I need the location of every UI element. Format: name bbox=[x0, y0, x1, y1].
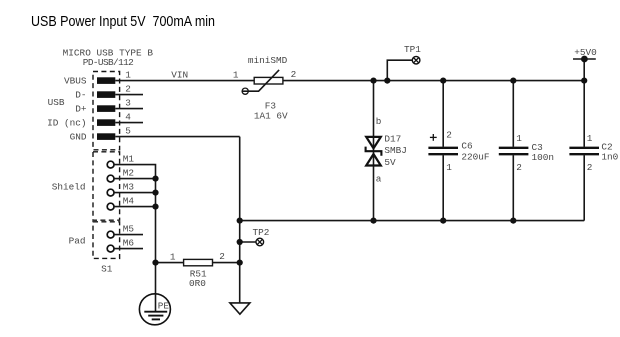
svg-text:Shield: Shield bbox=[52, 182, 86, 193]
junction C3 top bbox=[510, 78, 516, 84]
test point TP1 stub wire bbox=[387, 60, 412, 80]
svg-text:2: 2 bbox=[219, 251, 225, 262]
wire M3 stub bbox=[114, 192, 155, 194]
junction R51 pin2 bbox=[237, 260, 243, 266]
svg-text:1: 1 bbox=[446, 162, 452, 173]
svg-text:USB Power Input 5V 700mA min: USB Power Input 5V 700mA min bbox=[31, 14, 215, 30]
wire D17 column bbox=[373, 81, 375, 221]
junction C6 bottom bbox=[440, 218, 446, 224]
junction TP1 on rail bbox=[384, 78, 390, 84]
svg-text:2: 2 bbox=[516, 162, 522, 173]
svg-text:VBUS: VBUS bbox=[64, 76, 87, 87]
wire M4 stub bbox=[114, 206, 155, 208]
test point TP2 symbol bbox=[256, 238, 264, 246]
earth PE symbol circle bbox=[139, 294, 170, 325]
svg-text:ID (nc): ID (nc) bbox=[47, 118, 86, 129]
svg-text:miniSMD: miniSMD bbox=[248, 55, 288, 66]
capacitor C2 plates bbox=[569, 148, 599, 154]
svg-text:USB: USB bbox=[48, 97, 65, 108]
capacitor C2 bottom wire bbox=[583, 155, 585, 220]
wire pin2 stub bbox=[115, 94, 143, 96]
junction TP2 bbox=[237, 239, 243, 245]
wire M6 stub bbox=[114, 248, 143, 250]
svg-text:S1: S1 bbox=[101, 264, 113, 275]
wire VIN (pin1 to fuse) bbox=[115, 80, 254, 82]
wire +5V rail (fuse to +5V0) bbox=[283, 80, 584, 82]
junction C2 top rail bbox=[581, 78, 587, 84]
svg-text:1: 1 bbox=[170, 252, 176, 263]
pin 1 VBUS pad bbox=[97, 77, 115, 84]
svg-text:M3: M3 bbox=[123, 181, 135, 192]
connector S1 box pad M5-M6 (dashed) bbox=[93, 222, 120, 259]
pin M3 circle bbox=[107, 189, 114, 196]
svg-text:3: 3 bbox=[125, 97, 131, 108]
capacitor C3 bottom wire bbox=[512, 155, 514, 220]
junction M4 bbox=[152, 204, 158, 210]
connector S1 box pins 1-5 (dashed) bbox=[93, 72, 120, 150]
wire M5 stub bbox=[114, 234, 143, 236]
pin 3 D+ pad bbox=[97, 105, 115, 112]
fuse F3 diagonal stroke bbox=[248, 70, 279, 91]
svg-text:1: 1 bbox=[125, 69, 131, 80]
svg-text:GND: GND bbox=[70, 132, 87, 143]
svg-text:0R0: 0R0 bbox=[189, 278, 206, 289]
junction D17 top bbox=[370, 78, 376, 84]
svg-text:2: 2 bbox=[125, 83, 131, 94]
svg-text:5V: 5V bbox=[384, 157, 396, 168]
capacitor C6 top wire bbox=[442, 81, 444, 147]
svg-text:1: 1 bbox=[587, 133, 593, 144]
pin M5 circle bbox=[107, 231, 114, 238]
pin M6 circle bbox=[107, 245, 114, 252]
junction M2 bbox=[152, 176, 158, 182]
resistor R51 pin2 wire bbox=[213, 262, 240, 264]
svg-text:D17: D17 bbox=[384, 133, 401, 144]
junction C3 bottom bbox=[510, 218, 516, 224]
svg-text:M6: M6 bbox=[123, 237, 135, 248]
svg-text:a: a bbox=[376, 173, 382, 184]
fuse F3 polarity circle bbox=[242, 88, 248, 94]
wire ground rail (bottom) bbox=[240, 220, 585, 222]
junction D17 bottom bbox=[370, 218, 376, 224]
svg-text:M1: M1 bbox=[123, 153, 135, 164]
capacitor C3 plates bbox=[499, 148, 529, 154]
resistor R51 body bbox=[184, 259, 213, 265]
wire pin4 stub bbox=[115, 122, 143, 124]
junction M3 bbox=[152, 190, 158, 196]
fuse F3 circle minus line bbox=[242, 90, 249, 92]
diode D17 TVS top triangle bbox=[366, 137, 381, 148]
test point TP1 symbol bbox=[412, 56, 420, 64]
pin 4 ID pad bbox=[97, 119, 115, 126]
svg-text:C6: C6 bbox=[461, 141, 473, 152]
svg-text:100n: 100n bbox=[532, 152, 555, 163]
diode D17 TVS center bar bbox=[366, 147, 382, 156]
junction ground rail left bbox=[237, 218, 243, 224]
svg-text:1n0: 1n0 bbox=[601, 152, 618, 163]
svg-text:Pad: Pad bbox=[69, 235, 86, 246]
junction C6 top bbox=[440, 78, 446, 84]
svg-text:2: 2 bbox=[291, 69, 297, 80]
pin 2 D- pad bbox=[97, 91, 115, 98]
fuse F3 body bbox=[254, 77, 283, 84]
pin M4 circle bbox=[107, 203, 114, 210]
svg-text:M5: M5 bbox=[123, 223, 135, 234]
svg-text:D+: D+ bbox=[75, 104, 87, 115]
pin 5 GND pad bbox=[97, 133, 115, 140]
wire M1 to collector bbox=[114, 165, 155, 179]
svg-text:1: 1 bbox=[233, 69, 239, 80]
svg-text:PD-USB/112: PD-USB/112 bbox=[83, 57, 134, 68]
junction R51 pin1 bbox=[152, 260, 158, 266]
test point TP2 stub wire bbox=[240, 241, 256, 243]
wire shield collector vertical to PE bbox=[155, 179, 157, 312]
svg-text:M4: M4 bbox=[123, 195, 135, 206]
svg-text:TP2: TP2 bbox=[253, 227, 270, 238]
capacitor C6 plus sign bbox=[430, 134, 437, 141]
svg-text:+5V0: +5V0 bbox=[574, 47, 597, 58]
svg-text:D-: D- bbox=[75, 90, 86, 101]
svg-text:TP1: TP1 bbox=[404, 44, 421, 55]
wire pin3 stub bbox=[115, 108, 143, 110]
svg-text:M2: M2 bbox=[123, 167, 134, 178]
capacitor C2 top wire (from +5V0 bar) bbox=[583, 59, 585, 147]
svg-text:PE: PE bbox=[158, 301, 170, 312]
capacitor C3 top wire bbox=[512, 81, 514, 147]
svg-text:5: 5 bbox=[125, 125, 131, 136]
svg-text:2: 2 bbox=[587, 162, 593, 173]
svg-text:b: b bbox=[376, 116, 382, 127]
wire pin5 GND horizontal bbox=[115, 136, 239, 138]
svg-text:VIN: VIN bbox=[171, 69, 188, 80]
supply +5V0 bar bbox=[573, 58, 596, 60]
pin M1 circle bbox=[107, 161, 114, 168]
resistor R51 pin1 wire bbox=[156, 262, 184, 264]
svg-text:2: 2 bbox=[446, 129, 452, 140]
supply +5V0 dot bbox=[581, 56, 588, 63]
svg-text:1: 1 bbox=[516, 133, 522, 144]
svg-text:4: 4 bbox=[125, 111, 131, 122]
connector S1 box shield M1-M4 (dashed) bbox=[93, 152, 120, 220]
ground GND symbol (triangle) bbox=[230, 303, 250, 314]
pin M2 circle bbox=[107, 175, 114, 182]
wire M2 stub bbox=[114, 178, 155, 180]
capacitor C6 bottom wire bbox=[442, 155, 444, 220]
diode D17 TVS bottom triangle bbox=[366, 154, 381, 165]
svg-text:1A1 6V: 1A1 6V bbox=[254, 110, 288, 121]
earth PE bars bbox=[144, 312, 167, 320]
capacitor C6 plates bbox=[428, 148, 458, 154]
wire GND column vertical bbox=[239, 137, 241, 303]
svg-text:SMBJ: SMBJ bbox=[384, 145, 407, 156]
svg-text:220uF: 220uF bbox=[461, 151, 489, 162]
